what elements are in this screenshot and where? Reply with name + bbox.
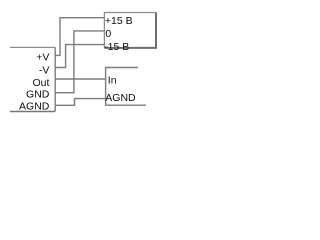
- svg-text:Out: Out: [32, 77, 49, 89]
- svg-text:-V: -V: [39, 64, 50, 76]
- power supply box: [104, 13, 157, 48]
- left block module right edge: [54, 47, 56, 111]
- wire GND to 0 terminal: [55, 31, 104, 93]
- wire -V to -15V terminal: [55, 45, 104, 68]
- svg-text:AGND: AGND: [105, 92, 136, 104]
- wire AGND to AGND terminal: [55, 99, 105, 106]
- wire Out to In terminal: [55, 78, 105, 80]
- svg-text:0: 0: [105, 28, 111, 40]
- svg-text:+V: +V: [36, 51, 49, 63]
- svg-text:-15 В: -15 В: [104, 41, 129, 53]
- left block module top edge: [10, 46, 55, 48]
- svg-text:AGND: AGND: [19, 100, 50, 112]
- svg-text:In: In: [108, 74, 117, 86]
- wire +V to +15V terminal: [55, 18, 104, 56]
- svg-text:+15 В: +15 В: [105, 15, 133, 27]
- svg-text:GND: GND: [26, 89, 50, 101]
- left block module bottom edge: [10, 111, 55, 113]
- input box: [106, 68, 146, 106]
